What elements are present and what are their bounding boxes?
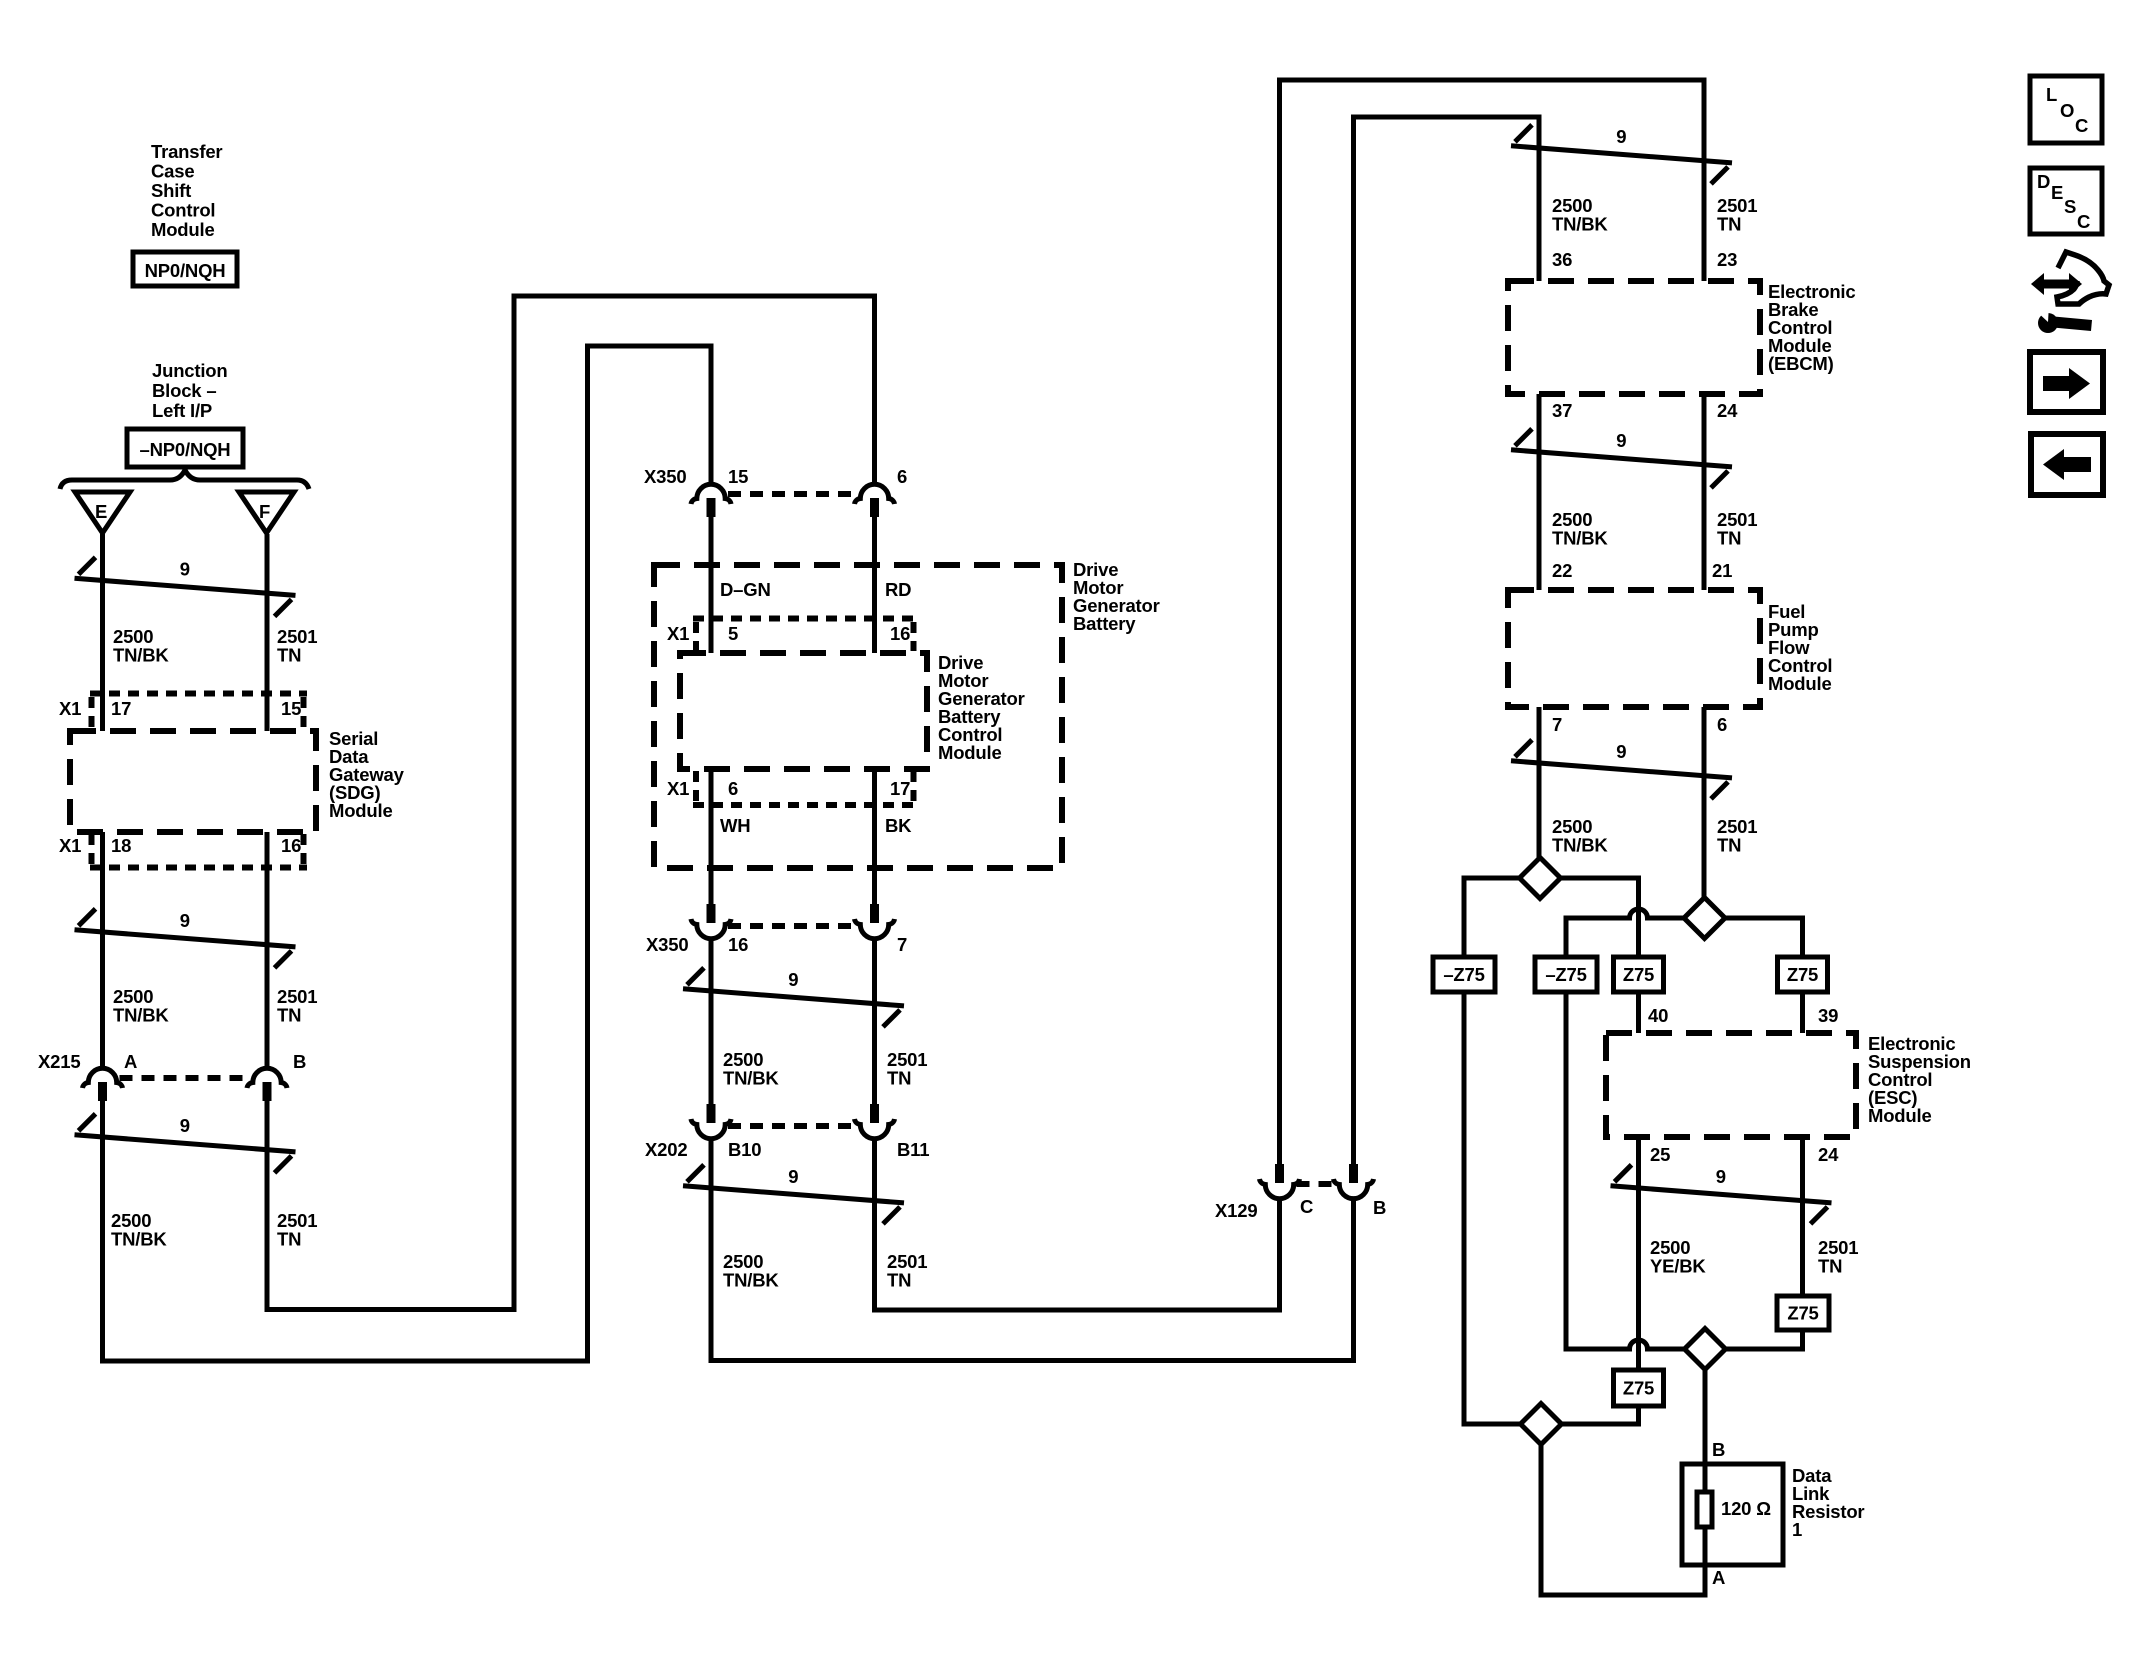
svg-text:Module: Module <box>329 800 393 821</box>
svg-text:A: A <box>1712 1567 1725 1588</box>
svg-text:BK: BK <box>885 815 912 836</box>
svg-text:C: C <box>1300 1196 1313 1217</box>
svg-text:Module: Module <box>938 742 1002 763</box>
svg-text:Resistor: Resistor <box>1792 1501 1864 1522</box>
svg-text:TN/BK: TN/BK <box>1552 528 1608 549</box>
svg-text:Z75: Z75 <box>1787 1303 1818 1324</box>
svg-text:E: E <box>2051 182 2063 203</box>
svg-text:X350: X350 <box>646 934 688 955</box>
svg-text:Module: Module <box>151 219 215 240</box>
svg-text:X350: X350 <box>644 466 686 487</box>
svg-text:9: 9 <box>1616 741 1626 762</box>
svg-text:9: 9 <box>1616 430 1626 451</box>
svg-text:WH: WH <box>720 815 750 836</box>
svg-text:Case: Case <box>151 161 194 182</box>
svg-text:TN: TN <box>1818 1256 1842 1277</box>
svg-text:X1: X1 <box>59 698 81 719</box>
svg-text:D: D <box>2037 171 2050 192</box>
svg-text:16: 16 <box>281 835 301 856</box>
svg-text:RD: RD <box>885 579 911 600</box>
svg-text:39: 39 <box>1818 1005 1838 1026</box>
svg-text:16: 16 <box>728 934 748 955</box>
svg-text:16: 16 <box>890 623 910 644</box>
svg-text:E: E <box>95 501 107 522</box>
svg-text:TN: TN <box>887 1270 911 1291</box>
svg-text:TN/BK: TN/BK <box>111 1229 167 1250</box>
svg-text:9: 9 <box>788 969 798 990</box>
svg-text:X202: X202 <box>645 1139 687 1160</box>
svg-text:TN/BK: TN/BK <box>1552 835 1608 856</box>
svg-text:21: 21 <box>1712 560 1732 581</box>
svg-text:6: 6 <box>1717 714 1727 735</box>
svg-text:TN: TN <box>277 1005 301 1026</box>
svg-text:TN: TN <box>277 1229 301 1250</box>
svg-text:5: 5 <box>728 623 738 644</box>
svg-text:TN: TN <box>1717 835 1741 856</box>
svg-text:TN: TN <box>1717 214 1741 235</box>
svg-text:Block –: Block – <box>152 380 216 401</box>
svg-text:6: 6 <box>728 778 738 799</box>
svg-text:B: B <box>1373 1197 1386 1218</box>
svg-text:Z75: Z75 <box>1787 964 1818 985</box>
svg-text:9: 9 <box>788 1166 798 1187</box>
svg-text:Transfer: Transfer <box>151 141 222 162</box>
svg-text:B: B <box>1712 1439 1725 1460</box>
svg-text:X1: X1 <box>59 835 81 856</box>
svg-text:X129: X129 <box>1215 1200 1257 1221</box>
svg-text:Battery: Battery <box>1073 613 1136 634</box>
svg-text:–Z75: –Z75 <box>1545 964 1586 985</box>
svg-text:B10: B10 <box>728 1139 761 1160</box>
svg-text:15: 15 <box>728 466 748 487</box>
svg-text:F: F <box>259 501 270 522</box>
svg-text:TN/BK: TN/BK <box>113 1005 169 1026</box>
svg-text:L: L <box>2046 84 2057 105</box>
svg-text:Z75: Z75 <box>1623 1378 1654 1399</box>
svg-text:24: 24 <box>1717 400 1738 421</box>
svg-text:–NP0/NQH: –NP0/NQH <box>140 439 231 460</box>
svg-text:(EBCM): (EBCM) <box>1768 353 1834 374</box>
svg-text:36: 36 <box>1552 249 1572 270</box>
svg-text:TN: TN <box>1717 528 1741 549</box>
svg-text:A: A <box>124 1051 137 1072</box>
svg-text:Module: Module <box>1868 1105 1932 1126</box>
svg-text:9: 9 <box>180 1115 190 1136</box>
svg-text:9: 9 <box>1616 126 1626 147</box>
svg-text:B11: B11 <box>897 1139 929 1160</box>
svg-text:X215: X215 <box>38 1051 80 1072</box>
svg-text:TN: TN <box>887 1068 911 1089</box>
svg-text:17: 17 <box>111 698 131 719</box>
svg-text:NP0/NQH: NP0/NQH <box>145 260 226 281</box>
svg-text:9: 9 <box>1716 1166 1726 1187</box>
svg-text:Left I/P: Left I/P <box>152 400 212 421</box>
svg-text:23: 23 <box>1717 249 1737 270</box>
svg-text:TN/BK: TN/BK <box>723 1068 779 1089</box>
svg-text:TN/BK: TN/BK <box>1552 214 1608 235</box>
svg-text:18: 18 <box>111 835 131 856</box>
svg-text:7: 7 <box>1552 714 1562 735</box>
svg-text:25: 25 <box>1650 1144 1670 1165</box>
svg-text:15: 15 <box>281 698 301 719</box>
svg-text:6: 6 <box>897 466 907 487</box>
svg-text:C: C <box>2077 211 2090 232</box>
svg-text:–Z75: –Z75 <box>1443 964 1484 985</box>
svg-text:D–GN: D–GN <box>720 579 771 600</box>
svg-text:C: C <box>2075 115 2088 136</box>
svg-text:TN/BK: TN/BK <box>113 645 169 666</box>
svg-text:TN: TN <box>277 645 301 666</box>
svg-text:Shift: Shift <box>151 180 191 201</box>
svg-text:7: 7 <box>897 934 907 955</box>
svg-text:Z75: Z75 <box>1623 964 1654 985</box>
svg-text:9: 9 <box>180 910 190 931</box>
svg-text:1: 1 <box>1792 1519 1802 1540</box>
svg-text:B: B <box>293 1051 306 1072</box>
svg-text:40: 40 <box>1648 1005 1668 1026</box>
svg-text:X1: X1 <box>667 778 689 799</box>
svg-text:Control: Control <box>151 200 215 221</box>
svg-text:Junction: Junction <box>152 360 227 381</box>
svg-text:22: 22 <box>1552 560 1572 581</box>
svg-text:120 Ω: 120 Ω <box>1721 1498 1771 1519</box>
svg-text:37: 37 <box>1552 400 1572 421</box>
svg-text:O: O <box>2060 100 2074 121</box>
svg-text:9: 9 <box>180 559 190 580</box>
svg-text:24: 24 <box>1818 1144 1839 1165</box>
svg-text:Module: Module <box>1768 673 1832 694</box>
svg-text:YE/BK: YE/BK <box>1650 1256 1706 1277</box>
svg-text:X1: X1 <box>667 623 689 644</box>
svg-text:17: 17 <box>890 778 910 799</box>
svg-text:TN/BK: TN/BK <box>723 1270 779 1291</box>
svg-text:S: S <box>2064 196 2076 217</box>
